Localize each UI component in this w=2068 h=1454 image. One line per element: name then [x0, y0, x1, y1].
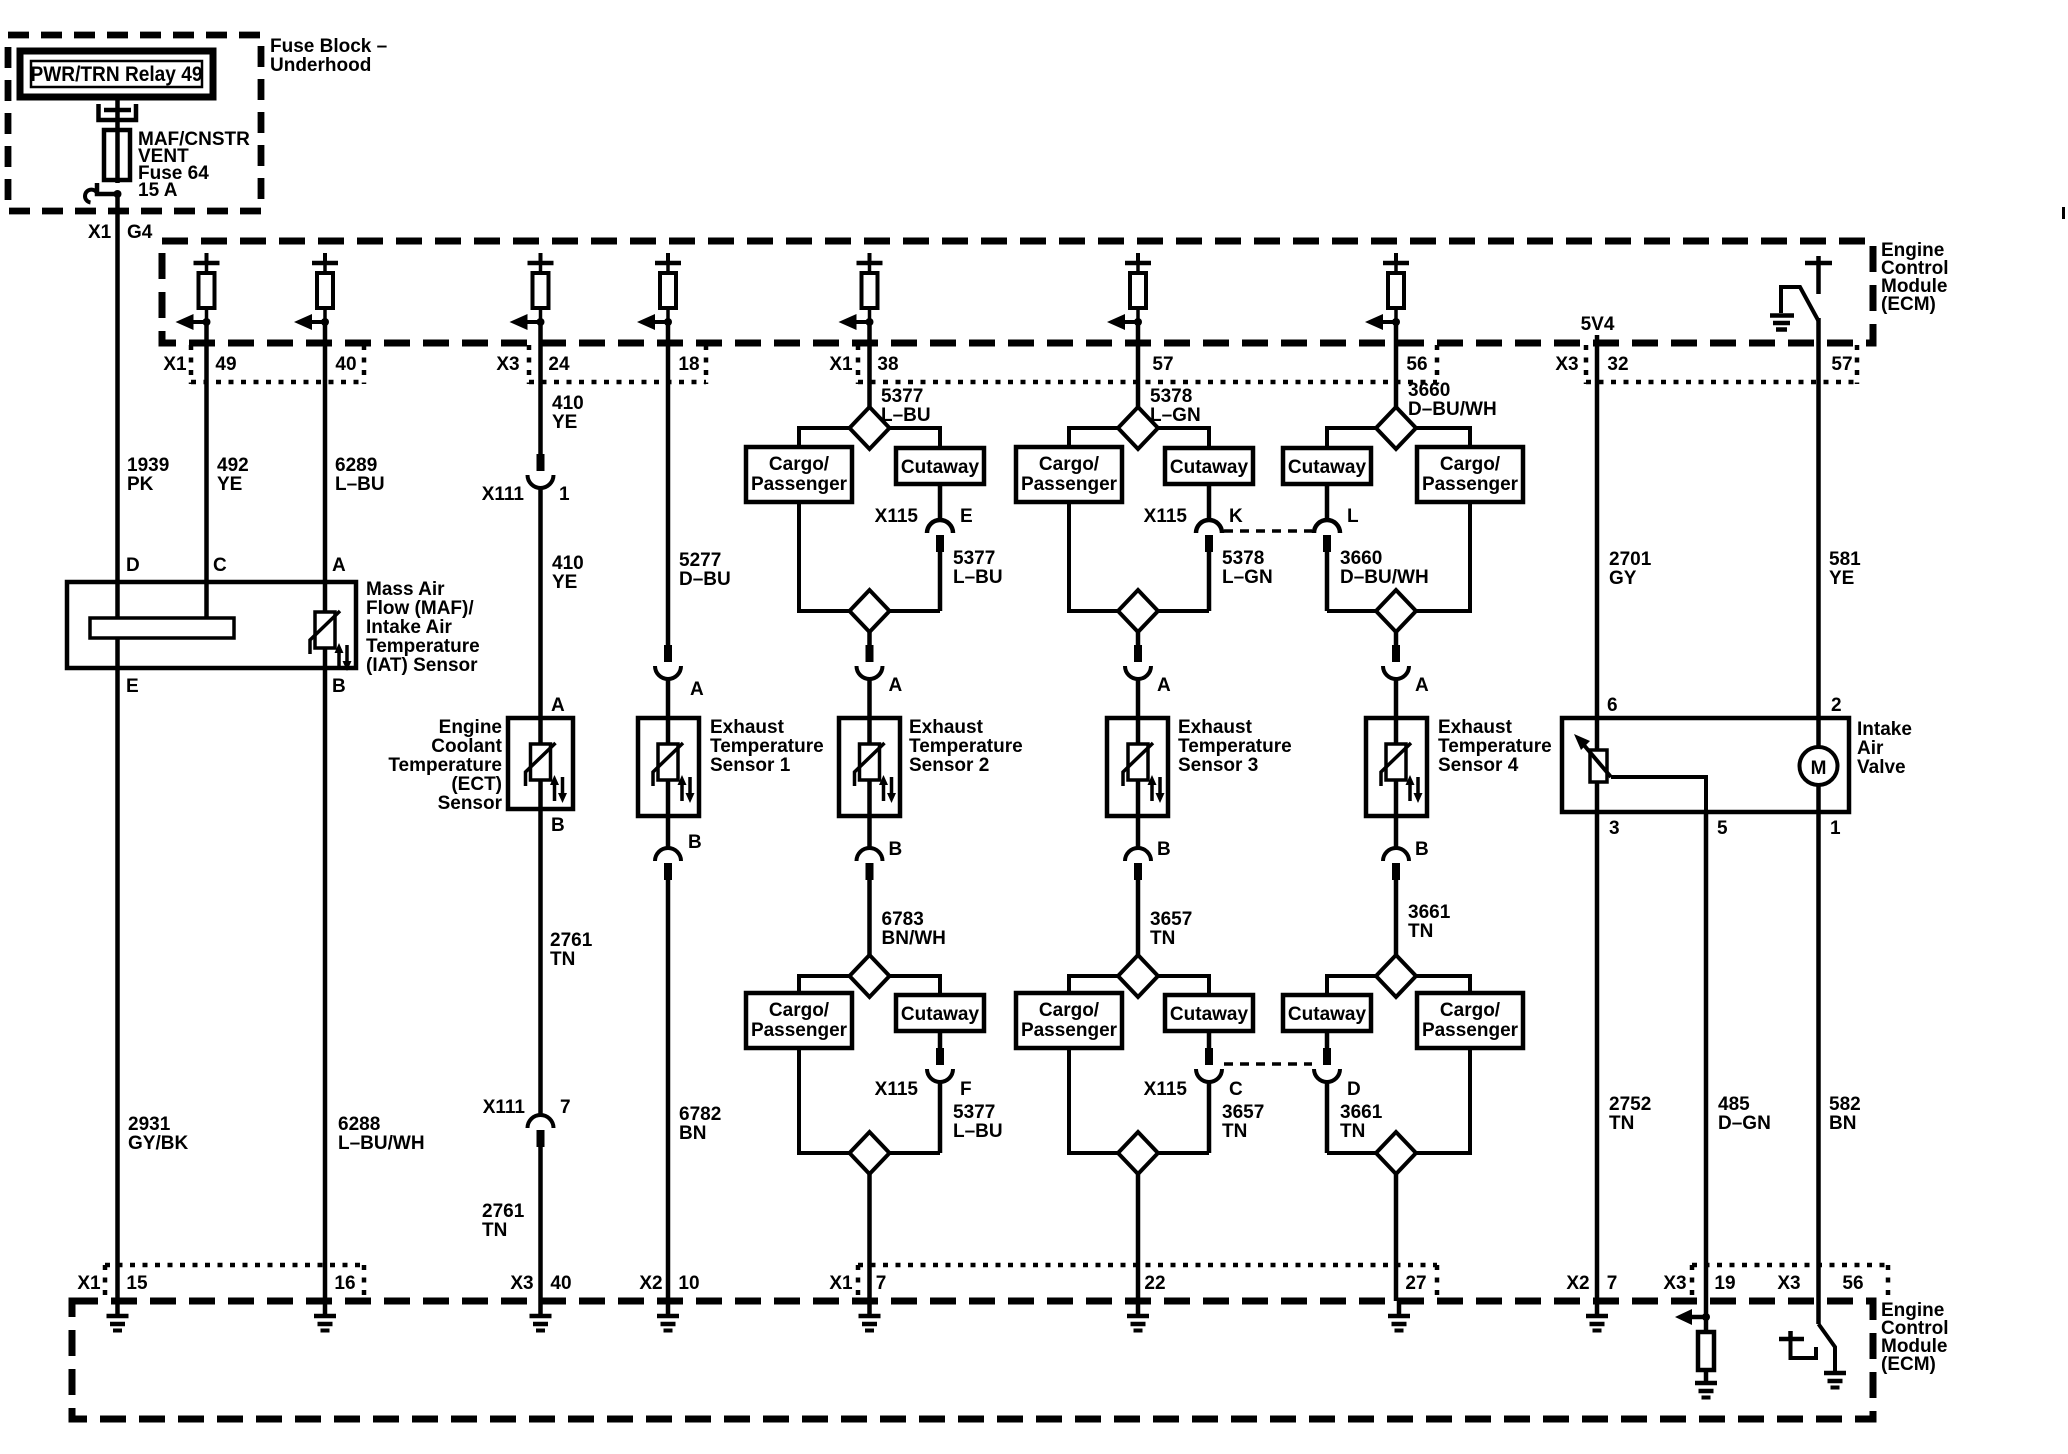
svg-text:Sensor 4: Sensor 4 — [1438, 755, 1519, 776]
wire 582 BN — [1816, 812, 1821, 1324]
wire 6289 L-BU — [323, 322, 328, 582]
wire to Cutaway — [1158, 428, 1209, 448]
svg-text:D: D — [1347, 1079, 1361, 1100]
svg-text:5377: 5377 — [881, 386, 923, 407]
svg-text:1: 1 — [1830, 818, 1841, 839]
svg-text:X1: X1 — [829, 1273, 853, 1294]
svg-text:581: 581 — [1829, 549, 1861, 570]
svg-text:57: 57 — [1831, 354, 1852, 375]
wire 6288 L-BU/WH — [323, 668, 328, 1301]
svg-text:B: B — [1415, 839, 1429, 860]
splice diamond merge sensor 4 — [1376, 590, 1416, 632]
svg-text:X3: X3 — [496, 354, 519, 375]
inline connector X115 pin F — [938, 1031, 943, 1048]
wire 3661 TN lower — [1325, 1082, 1330, 1153]
svg-text:X115: X115 — [875, 506, 919, 527]
svg-text:Cargo/: Cargo/ — [1440, 454, 1501, 475]
Cargo/Passenger option box sensor 2 top — [746, 447, 852, 502]
svg-text:7: 7 — [1607, 1273, 1618, 1294]
svg-text:Temperature: Temperature — [710, 736, 824, 757]
IAT thermistor — [323, 582, 328, 612]
ECM internal pull-up resistor pin 19 — [1675, 1309, 1717, 1398]
ECM driver pin 40 — [294, 253, 338, 330]
svg-text:G4: G4 — [127, 222, 153, 243]
stray mark — [2062, 207, 2065, 219]
svg-text:3657: 3657 — [1150, 909, 1192, 930]
svg-text:6783: 6783 — [882, 909, 924, 930]
svg-text:7: 7 — [876, 1273, 887, 1294]
svg-text:Flow (MAF)/: Flow (MAF)/ — [366, 598, 474, 619]
ground pin 22 — [1136, 1301, 1141, 1314]
wire to Cutaway — [1327, 428, 1376, 448]
svg-text:X1: X1 — [163, 354, 187, 375]
svg-text:TN: TN — [1609, 1113, 1634, 1134]
wire 5377 L-BU — [867, 322, 872, 407]
svg-text:18: 18 — [678, 354, 699, 375]
svg-text:X111: X111 — [482, 484, 525, 505]
svg-text:(ECM): (ECM) — [1881, 294, 1936, 315]
svg-text:7: 7 — [560, 1097, 571, 1118]
wire 410 YE lower — [538, 488, 543, 718]
Exhaust Temperature Sensor 3 box — [1107, 718, 1168, 816]
IAV wiper wire to pin 5 — [1611, 777, 1706, 812]
svg-text:5: 5 — [1717, 818, 1728, 839]
svg-text:Sensor 2: Sensor 2 — [909, 755, 989, 776]
svg-text:6: 6 — [1607, 695, 1618, 716]
svg-text:B: B — [1157, 839, 1171, 860]
svg-text:L–BU: L–BU — [335, 474, 385, 495]
wire to ECM pin — [1136, 1174, 1141, 1301]
Cargo/Passenger option box sensor 3 top — [1016, 447, 1122, 502]
svg-text:Cargo/: Cargo/ — [769, 454, 830, 475]
wire to Cargo/Passenger lower — [799, 976, 850, 993]
svg-text:YE: YE — [1829, 568, 1854, 589]
wire 410 YE upper — [538, 322, 543, 454]
ECM driver pin 24 — [510, 253, 554, 330]
inline connector X115 pin E — [938, 484, 943, 520]
svg-text:L–BU: L–BU — [881, 405, 931, 426]
svg-text:A: A — [551, 695, 565, 716]
ECM driver pin 49 — [176, 253, 220, 330]
Cargo/Passenger option box sensor 4 top — [1417, 447, 1523, 502]
svg-text:L–GN: L–GN — [1150, 405, 1201, 426]
ground pin X2-7 — [1595, 1301, 1600, 1314]
svg-text:Cargo/: Cargo/ — [769, 1000, 830, 1021]
ECM driver pin 18 — [637, 253, 681, 330]
svg-text:Cutaway: Cutaway — [901, 1004, 980, 1025]
svg-text:TN: TN — [1340, 1121, 1365, 1142]
Cutaway option box sensor 2 bottom — [896, 995, 984, 1031]
wire 2931 GY/BK — [115, 668, 120, 1301]
inline connector X115 pin C — [1207, 1031, 1212, 1048]
sensor 3 connector A — [1136, 632, 1141, 645]
wire 2761 TN lower — [538, 1147, 543, 1301]
splice diamond lower sensor 3 — [1118, 955, 1158, 997]
svg-text:5377: 5377 — [953, 1102, 995, 1123]
svg-text:492: 492 — [217, 455, 249, 476]
svg-text:5277: 5277 — [679, 550, 721, 571]
inline connector X111 pin 1 — [537, 454, 545, 471]
relay contact pin — [115, 97, 120, 130]
Exhaust Temperature Sensor 2 box — [839, 718, 900, 816]
svg-text:19: 19 — [1714, 1273, 1735, 1294]
svg-text:(ECT): (ECT) — [451, 774, 502, 795]
svg-text:X115: X115 — [1144, 1079, 1188, 1100]
svg-text:1: 1 — [559, 484, 570, 505]
splice diamond merge sensor 3 — [1118, 590, 1158, 632]
svg-text:Passenger: Passenger — [1422, 1020, 1519, 1041]
wire cargo branch — [1069, 502, 1118, 611]
wire 485 D-GN — [1704, 812, 1709, 1317]
svg-text:57: 57 — [1152, 354, 1173, 375]
Exhaust Temperature Sensor 4 box — [1366, 718, 1427, 816]
svg-text:D–BU/WH: D–BU/WH — [1408, 399, 1497, 420]
svg-text:GY/BK: GY/BK — [128, 1133, 188, 1154]
svg-text:Temperature: Temperature — [366, 636, 480, 657]
splice diamond upper sensor 2 — [850, 407, 890, 449]
svg-text:1939: 1939 — [127, 455, 169, 476]
wire 2761 TN upper — [538, 809, 543, 1116]
svg-text:A: A — [1415, 675, 1429, 696]
svg-text:15: 15 — [126, 1273, 148, 1294]
svg-text:Temperature: Temperature — [1438, 736, 1552, 757]
wire 6783 BN/WH lower — [938, 1082, 943, 1153]
svg-text:2761: 2761 — [482, 1201, 525, 1222]
svg-text:15 A: 15 A — [138, 180, 178, 201]
svg-text:Fuse Block –: Fuse Block – — [270, 36, 387, 57]
inline connector X115 pin K — [1207, 484, 1212, 520]
svg-text:6288: 6288 — [338, 1114, 380, 1135]
wire 5378 L-GN — [1136, 322, 1141, 407]
svg-text:5378: 5378 — [1150, 386, 1192, 407]
Cutaway option box sensor 2 top — [896, 448, 984, 484]
svg-text:X2: X2 — [1566, 1273, 1589, 1294]
PWR/TRN Relay 49 — [20, 51, 213, 97]
ECM bottom connector pin row — [103, 1265, 108, 1301]
fuse output terminal — [97, 183, 118, 194]
svg-text:A: A — [1157, 675, 1171, 696]
svg-text:YE: YE — [552, 412, 577, 433]
svg-text:BN: BN — [679, 1123, 706, 1144]
svg-text:6289: 6289 — [335, 455, 377, 476]
svg-text:Cargo/: Cargo/ — [1039, 1000, 1100, 1021]
IAV motor M — [1816, 718, 1821, 747]
svg-text:Mass Air: Mass Air — [366, 579, 445, 600]
svg-text:C: C — [1229, 1079, 1243, 1100]
ground pin X2-10 — [666, 1301, 671, 1314]
svg-text:5377: 5377 — [953, 548, 995, 569]
wire 6782 BN — [666, 880, 671, 1301]
svg-text:Temperature: Temperature — [909, 736, 1023, 757]
svg-text:B: B — [889, 839, 903, 860]
svg-text:Underhood: Underhood — [270, 55, 371, 76]
svg-text:Exhaust: Exhaust — [1178, 717, 1253, 738]
svg-text:GY: GY — [1609, 568, 1637, 589]
IAV position sensor (potentiometer) — [1595, 718, 1600, 750]
wire cargo branch — [799, 502, 850, 611]
svg-text:M: M — [1811, 758, 1827, 779]
svg-text:K: K — [1229, 506, 1243, 527]
svg-text:TN: TN — [1150, 928, 1175, 949]
svg-text:X3: X3 — [510, 1273, 533, 1294]
ECT sensor box — [508, 718, 573, 809]
svg-text:49: 49 — [215, 354, 236, 375]
svg-text:A: A — [332, 555, 346, 576]
svg-text:Cutaway: Cutaway — [1288, 1004, 1367, 1025]
svg-text:Sensor 1: Sensor 1 — [710, 755, 791, 776]
svg-text:(ECM): (ECM) — [1881, 1354, 1936, 1375]
ECM internal switch to ground (pin 57 right) — [1770, 256, 1832, 343]
dashed jumper X115 K-L — [1224, 529, 1312, 533]
sensor 2 connector A — [867, 632, 872, 645]
svg-text:6782: 6782 — [679, 1104, 721, 1125]
svg-text:Intake Air: Intake Air — [366, 617, 452, 638]
splice diamond bottom merge sensor 2 — [850, 1132, 890, 1174]
fuse block underhood box — [8, 35, 261, 211]
wire 3657 TN lower — [1207, 1082, 1212, 1153]
svg-text:Cutaway: Cutaway — [1288, 457, 1367, 478]
wire 581 YE — [1816, 343, 1821, 718]
svg-text:BN/WH: BN/WH — [882, 928, 946, 949]
svg-text:27: 27 — [1405, 1273, 1426, 1294]
wire 492 YE — [204, 322, 209, 582]
wire cargo branch lower — [1069, 1048, 1118, 1153]
svg-text:B: B — [332, 676, 346, 697]
wire 5378 L–GN mid — [1207, 552, 1212, 611]
splice diamond bottom merge sensor 4 — [1376, 1132, 1416, 1174]
svg-text:3660: 3660 — [1340, 548, 1382, 569]
wire 3660 D-BU/WH — [1394, 322, 1399, 407]
Cutaway option box sensor 3 bottom — [1165, 995, 1253, 1031]
ground pin 7 — [867, 1301, 872, 1314]
wire 6783 BN/WH — [867, 880, 872, 955]
wire cargo branch — [1416, 502, 1470, 611]
ground pin X3-40 — [538, 1301, 543, 1314]
svg-text:Passenger: Passenger — [751, 1020, 848, 1041]
svg-text:Cargo/: Cargo/ — [1039, 454, 1100, 475]
Cutaway option box sensor 4 bottom — [1283, 995, 1371, 1031]
svg-text:22: 22 — [1144, 1273, 1165, 1294]
Cargo/Passenger option box sensor 4 bottom — [1417, 993, 1523, 1048]
svg-text:2701: 2701 — [1609, 549, 1652, 570]
svg-text:B: B — [551, 815, 565, 836]
svg-text:L–BU: L–BU — [953, 567, 1003, 588]
inline connector X115 pin D — [1325, 1031, 1330, 1048]
wire to Cutaway lower — [890, 976, 941, 995]
svg-text:2752: 2752 — [1609, 1094, 1651, 1115]
wire 3661 TN — [1394, 880, 1399, 955]
wire to Cargo/Passenger lower — [1069, 976, 1118, 993]
svg-text:2761: 2761 — [550, 930, 593, 951]
svg-text:YE: YE — [552, 572, 577, 593]
svg-text:Temperature: Temperature — [1178, 736, 1292, 757]
svg-text:D–BU/WH: D–BU/WH — [1340, 567, 1429, 588]
svg-text:D–BU: D–BU — [679, 569, 731, 590]
svg-text:A: A — [690, 679, 704, 700]
svg-text:38: 38 — [877, 354, 898, 375]
wire to ECM pin — [1394, 1174, 1399, 1301]
sensor 4 connector A — [1394, 632, 1399, 645]
Intake Air Valve box — [1562, 718, 1849, 812]
Exhaust Temperature Sensor 1 box — [638, 718, 699, 816]
dashed jumper X115 C-D — [1224, 1062, 1312, 1066]
MAF heater element — [90, 618, 234, 638]
svg-text:3661: 3661 — [1340, 1102, 1383, 1123]
svg-text:56: 56 — [1406, 354, 1427, 375]
wire to Cutaway lower — [1158, 976, 1209, 995]
ECM driver pin 57 — [1107, 253, 1151, 330]
wire 3660 D–BU/WH mid — [1325, 552, 1330, 611]
svg-text:Sensor 3: Sensor 3 — [1178, 755, 1258, 776]
svg-text:C: C — [213, 555, 227, 576]
svg-text:Exhaust: Exhaust — [1438, 717, 1513, 738]
svg-text:TN: TN — [550, 949, 575, 970]
svg-text:Intake: Intake — [1857, 719, 1912, 740]
svg-text:582: 582 — [1829, 1094, 1861, 1115]
svg-text:B: B — [688, 832, 702, 853]
svg-text:Sensor: Sensor — [438, 793, 503, 814]
svg-text:Temperature: Temperature — [388, 755, 502, 776]
svg-text:L–GN: L–GN — [1222, 567, 1273, 588]
svg-text:410: 410 — [552, 553, 584, 574]
Cutaway option box sensor 4 top — [1283, 448, 1371, 484]
splice diamond bottom merge sensor 3 — [1118, 1132, 1158, 1174]
svg-text:X111: X111 — [483, 1097, 526, 1118]
svg-text:Valve: Valve — [1857, 757, 1906, 778]
wire to Cargo/Passenger — [1069, 428, 1118, 447]
svg-text:3660: 3660 — [1408, 380, 1450, 401]
svg-text:Cutaway: Cutaway — [1170, 457, 1249, 478]
svg-text:Passenger: Passenger — [1422, 474, 1519, 495]
wire 3657 TN — [1136, 880, 1141, 955]
fuse MAF/CNSTR VENT Fuse 64 15A — [104, 130, 130, 180]
svg-text:X3: X3 — [1663, 1273, 1686, 1294]
wire to Cargo/Passenger lower — [1416, 976, 1470, 993]
svg-text:A: A — [889, 675, 903, 696]
svg-text:Exhaust: Exhaust — [909, 717, 984, 738]
svg-text:L–BU/WH: L–BU/WH — [338, 1133, 425, 1154]
wire to ECM pin — [867, 1174, 872, 1301]
ECM top connector pin row — [189, 345, 194, 384]
inline connector X115 pin L — [1325, 484, 1330, 520]
svg-text:TN: TN — [482, 1220, 507, 1241]
wire 5377 L–BU mid — [938, 552, 943, 611]
wire fuse to MAF pin D — [115, 194, 120, 582]
svg-text:X1: X1 — [829, 354, 853, 375]
ground pin 15 — [115, 1301, 120, 1314]
svg-text:2: 2 — [1831, 695, 1842, 716]
svg-text:BN: BN — [1829, 1113, 1856, 1134]
svg-text:40: 40 — [335, 354, 356, 375]
svg-text:X3: X3 — [1555, 354, 1578, 375]
svg-text:3: 3 — [1609, 818, 1620, 839]
svg-text:X115: X115 — [875, 1079, 919, 1100]
svg-text:X115: X115 — [1144, 506, 1188, 527]
ECM internal switch pin 56 — [1779, 1324, 1846, 1388]
ECM bottom box — [72, 1301, 1873, 1419]
svg-text:3661: 3661 — [1408, 902, 1451, 923]
svg-text:PK: PK — [127, 474, 154, 495]
svg-text:Cutaway: Cutaway — [1170, 1004, 1249, 1025]
svg-text:D–GN: D–GN — [1718, 1113, 1771, 1134]
svg-text:L–BU: L–BU — [953, 1121, 1003, 1142]
svg-text:5378: 5378 — [1222, 548, 1264, 569]
svg-text:Engine: Engine — [439, 717, 502, 738]
wire cargo branch lower — [1416, 1048, 1470, 1153]
svg-text:32: 32 — [1607, 354, 1628, 375]
svg-text:Cargo/: Cargo/ — [1440, 1000, 1501, 1021]
svg-text:F: F — [960, 1079, 972, 1100]
svg-text:YE: YE — [217, 474, 242, 495]
ECM driver pin 56 — [1365, 253, 1409, 330]
splice diamond upper sensor 4 — [1376, 407, 1416, 449]
wire to Cutaway lower — [1327, 976, 1376, 995]
svg-text:3657: 3657 — [1222, 1102, 1264, 1123]
svg-text:X1: X1 — [77, 1273, 101, 1294]
ground pin 16 — [323, 1301, 328, 1314]
svg-text:Passenger: Passenger — [751, 474, 848, 495]
svg-text:PWR/TRN Relay 49: PWR/TRN Relay 49 — [31, 63, 203, 86]
splice diamond lower sensor 4 — [1376, 955, 1416, 997]
svg-text:TN: TN — [1222, 1121, 1247, 1142]
wire cargo branch lower — [799, 1048, 850, 1153]
inline connector X111 pin 7 — [528, 1115, 554, 1128]
svg-text:TN: TN — [1408, 921, 1433, 942]
svg-text:X2: X2 — [639, 1273, 662, 1294]
wire to Cutaway — [890, 428, 941, 448]
svg-text:410: 410 — [552, 393, 584, 414]
splice diamond merge sensor 2 — [850, 590, 890, 632]
wire 2752 TN — [1595, 812, 1600, 1301]
svg-text:E: E — [960, 506, 973, 527]
svg-text:Air: Air — [1857, 738, 1884, 759]
svg-text:Coolant: Coolant — [431, 736, 502, 757]
wire to Cargo/Passenger — [1416, 428, 1470, 447]
svg-text:L: L — [1347, 506, 1359, 527]
MAF/IAT sensor box — [67, 582, 356, 668]
svg-text:56: 56 — [1842, 1273, 1863, 1294]
svg-text:E: E — [126, 676, 139, 697]
svg-text:(IAT) Sensor: (IAT) Sensor — [366, 655, 478, 676]
svg-text:2931: 2931 — [128, 1114, 171, 1135]
svg-text:24: 24 — [548, 354, 570, 375]
Cutaway option box sensor 3 top — [1165, 448, 1253, 484]
splice diamond lower sensor 2 — [850, 955, 890, 997]
sensor1 connector A — [664, 645, 672, 662]
svg-text:X1: X1 — [88, 222, 112, 243]
Cargo/Passenger option box sensor 2 bottom — [746, 993, 852, 1048]
wire to Cargo/Passenger — [799, 428, 850, 447]
svg-text:Passenger: Passenger — [1021, 474, 1118, 495]
svg-text:Passenger: Passenger — [1021, 1020, 1118, 1041]
splice diamond upper sensor 3 — [1118, 407, 1158, 449]
svg-text:D: D — [126, 555, 140, 576]
svg-text:X3: X3 — [1777, 1273, 1800, 1294]
wire 2701 GY — [1595, 343, 1600, 718]
svg-text:Exhaust: Exhaust — [710, 717, 785, 738]
svg-text:40: 40 — [550, 1273, 571, 1294]
svg-text:5V4: 5V4 — [1581, 314, 1615, 335]
Cargo/Passenger option box sensor 3 bottom — [1016, 993, 1122, 1048]
ECM top box — [162, 241, 1873, 343]
svg-text:16: 16 — [334, 1273, 355, 1294]
svg-text:485: 485 — [1718, 1094, 1750, 1115]
wire 5277 D-BU — [666, 322, 671, 645]
ground pin 27 — [1397, 1301, 1402, 1314]
ECM driver pin 38 — [839, 253, 883, 330]
svg-text:10: 10 — [678, 1273, 699, 1294]
svg-text:Cutaway: Cutaway — [901, 457, 980, 478]
